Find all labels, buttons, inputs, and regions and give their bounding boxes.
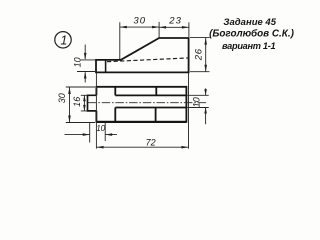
dim 26 right: arrows xyxy=(204,38,207,45)
dim 23 top: arrows xyxy=(159,26,166,29)
dim 10 plan right: dimension tails xyxy=(205,88,207,124)
svg-text:10: 10 xyxy=(73,57,83,67)
dim 16: extension lines xyxy=(81,95,88,111)
plan inner edge top xyxy=(115,94,186,96)
dim 16: arrows xyxy=(83,95,86,101)
dim 26 right: extension lines xyxy=(190,38,210,72)
svg-text:72: 72 xyxy=(146,137,156,147)
dim 10 left: dimension lines xyxy=(84,45,86,83)
svg-text:26: 26 xyxy=(193,48,204,61)
front view step edge xyxy=(105,60,107,73)
dim 30 top: dimension line xyxy=(120,26,159,28)
svg-text:16: 16 xyxy=(72,97,82,107)
dim 30 top: arrows xyxy=(120,26,127,29)
dim 23 top: dimension line xyxy=(159,26,189,28)
svg-text:23: 23 xyxy=(168,15,182,26)
svg-text:1: 1 xyxy=(60,34,67,48)
plan inner vertical 2 xyxy=(155,87,158,122)
dim 30 plan left: arrows xyxy=(68,87,71,94)
dim 10 bottom: arrows xyxy=(83,133,90,136)
svg-text:10: 10 xyxy=(192,97,202,107)
plan view left tab xyxy=(88,95,97,111)
svg-text:10: 10 xyxy=(96,124,105,133)
svg-text:Задание 45: Задание 45 xyxy=(223,17,276,28)
dim 30 plan left: extension lines xyxy=(66,87,95,123)
plan centre line xyxy=(88,102,208,104)
dim 10 left: arrows xyxy=(84,53,87,60)
plan view outline xyxy=(96,87,186,122)
svg-text:30: 30 xyxy=(133,15,146,26)
front view hidden line xyxy=(107,58,189,62)
variant circle badge xyxy=(55,32,71,48)
dim 16: dimension line xyxy=(83,95,85,111)
dim 30 top: extension lines xyxy=(120,22,159,59)
dim 10 left: extension lines xyxy=(77,60,96,72)
dim 72: arrows xyxy=(97,146,104,149)
svg-text:вариант 1-1: вариант 1-1 xyxy=(222,41,276,51)
plan inner edge bottom xyxy=(115,107,186,109)
dim 72: dimension line xyxy=(97,146,189,148)
dim 10 bottom: extension lines xyxy=(90,122,106,142)
dim 23 top: extension line xyxy=(188,22,190,37)
dim 26 right: dimension line xyxy=(205,38,207,72)
plan inner vertical 1 xyxy=(114,87,116,122)
svg-text:30: 30 xyxy=(57,93,67,103)
dim 10 plan right: arrows xyxy=(204,89,207,95)
plan view bottom edge (heavy) xyxy=(96,121,186,123)
front view outline xyxy=(96,38,189,72)
svg-text:(Боголюбов С.К.): (Боголюбов С.К.) xyxy=(209,29,294,40)
dim 10 plan right: extension lines xyxy=(188,95,209,107)
dim 72: extension lines xyxy=(96,73,188,149)
dim 10 bottom: dimension tails xyxy=(65,134,118,136)
dim 30 plan left: dimension line xyxy=(69,87,71,123)
